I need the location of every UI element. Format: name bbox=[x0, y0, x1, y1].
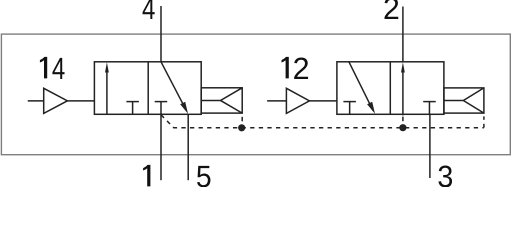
svg-text:4: 4 bbox=[52, 51, 65, 86]
svg-text:3: 3 bbox=[437, 159, 453, 187]
svg-text:4: 4 bbox=[142, 0, 155, 26]
svg-text:2: 2 bbox=[383, 0, 400, 26]
svg-text:5: 5 bbox=[196, 159, 212, 187]
svg-text:2: 2 bbox=[293, 51, 310, 86]
